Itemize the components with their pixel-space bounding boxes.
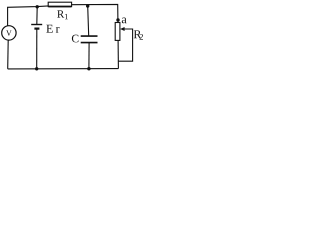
battery E r bbox=[31, 25, 42, 29]
node a dot bbox=[116, 18, 119, 21]
capacitor C bbox=[81, 36, 98, 43]
wire bottom rail bbox=[8, 68, 119, 70]
wiper arrow of R2 bbox=[118, 27, 132, 61]
label R2 bbox=[134, 30, 143, 39]
wire battery bottom bbox=[36, 29, 38, 69]
label E bbox=[46, 25, 52, 33]
resistor R2 bbox=[115, 23, 120, 41]
wire voltmeter bottom bbox=[7, 40, 10, 69]
wire top-left from corner to R1 bbox=[8, 6, 49, 26]
wire capacitor bottom bbox=[88, 43, 90, 69]
junction dot bottom battery branch bbox=[35, 67, 38, 70]
wire R2 bottom bbox=[117, 40, 119, 68]
wire capacitor top bbox=[88, 6, 89, 36]
wire battery top bbox=[36, 7, 38, 25]
label R1 bbox=[57, 10, 68, 19]
label C bbox=[72, 35, 79, 43]
junction dot bottom capacitor branch bbox=[87, 67, 90, 70]
wire top-right from R1 to node a bbox=[71, 4, 118, 22]
resistor R1 bbox=[48, 2, 71, 6]
label a bbox=[122, 18, 127, 24]
junction dot top battery branch bbox=[36, 5, 39, 8]
voltmeter V bbox=[2, 26, 16, 40]
junction dot top capacitor branch bbox=[86, 4, 89, 7]
label r bbox=[56, 27, 60, 33]
